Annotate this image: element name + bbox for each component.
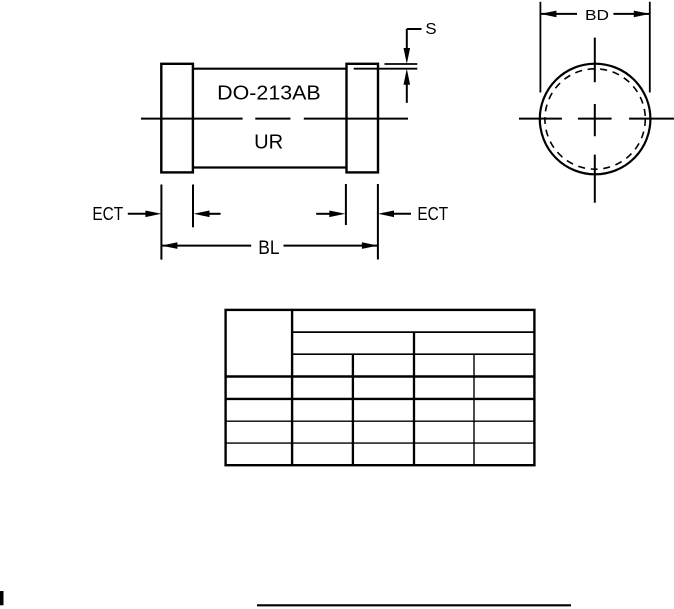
table vertical divider 3 xyxy=(413,332,415,465)
table vertical divider 4 xyxy=(473,354,475,465)
extension line right (BL/ECT) xyxy=(377,184,379,260)
horizontal centerline of end view xyxy=(519,118,674,120)
body bottom line xyxy=(193,166,347,168)
table header bottom line xyxy=(226,375,535,377)
package body DO-213AB side view: left end cap xyxy=(161,64,193,173)
right end cap xyxy=(347,64,379,173)
BD dimension line left with left arrow xyxy=(541,13,577,15)
bottom rule xyxy=(257,604,571,606)
table row line 3 xyxy=(226,442,535,444)
table row line 2 xyxy=(226,420,535,422)
svg-text:UR: UR xyxy=(254,131,283,153)
BL dimension line right segment with right arrow xyxy=(284,245,378,247)
extension line left inner (ECT) xyxy=(192,185,194,228)
table header line 1 xyxy=(292,331,534,333)
ECT left arrow pointing right xyxy=(128,213,147,215)
svg-text:BD: BD xyxy=(585,7,609,24)
dimension table outline xyxy=(226,310,535,465)
left margin tab xyxy=(0,591,4,605)
S dimension extension line (body top level) xyxy=(354,68,418,70)
svg-text:ECT: ECT xyxy=(92,204,123,224)
end view: dashed body circle xyxy=(545,69,645,169)
body top line xyxy=(193,68,347,70)
ECT right arrow pointing left xyxy=(393,213,411,215)
S dimension extension line (cap top level) xyxy=(385,63,418,65)
BD extension line right xyxy=(649,2,651,93)
ECT left inner arrow pointing left xyxy=(209,213,221,215)
table row line 1 xyxy=(226,398,535,400)
table vertical divider 1 (full height) xyxy=(291,310,293,465)
svg-text:S: S xyxy=(425,21,436,38)
svg-text:ECT: ECT xyxy=(417,204,448,224)
svg-text:DO-213AB: DO-213AB xyxy=(217,83,321,105)
extension line right inner (ECT) xyxy=(345,184,347,225)
svg-text:BL: BL xyxy=(258,238,279,259)
horizontal centerline of side view xyxy=(141,118,408,120)
vertical centerline of end view xyxy=(594,38,596,203)
table header line 2 xyxy=(292,353,534,355)
BD extension line left xyxy=(539,2,541,93)
S leader vertical with down arrow xyxy=(406,29,408,49)
extension line left (BL/ECT) xyxy=(160,185,162,260)
BL dimension line left segment with left arrow xyxy=(162,245,251,247)
S up arrow below body top line xyxy=(406,84,408,103)
S leader horizontal xyxy=(407,28,422,30)
table vertical divider 2 xyxy=(352,354,354,465)
end view: outer circle (end cap dia) xyxy=(540,64,651,175)
BD dimension line right with right arrow xyxy=(613,13,649,15)
ECT right inner arrow pointing right xyxy=(316,213,330,215)
